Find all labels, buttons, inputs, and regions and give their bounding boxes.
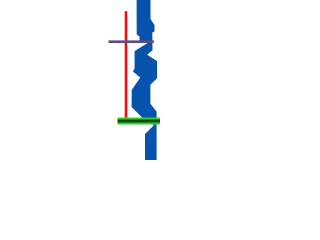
green road casing xyxy=(118,118,161,125)
red vertical line xyxy=(125,11,128,117)
purple horizontal line xyxy=(109,40,154,43)
green road dark core xyxy=(118,120,161,123)
blue river polyline (thick bent band) xyxy=(132,0,157,160)
